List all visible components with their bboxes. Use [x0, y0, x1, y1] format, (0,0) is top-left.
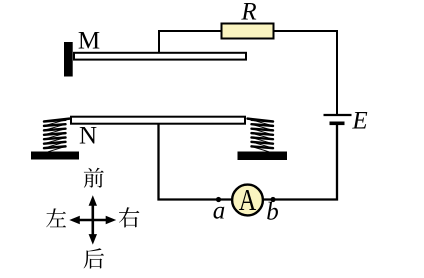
label 左 (left): [46, 208, 66, 227]
node a (junction dot): [216, 197, 221, 202]
left spring return strokes: [44, 120, 66, 152]
svg-text:b: b: [266, 199, 279, 226]
node b (junction dot): [270, 197, 275, 202]
right spring return strokes: [252, 120, 274, 152]
svg-text:M: M: [78, 28, 100, 55]
right ground block: [238, 152, 288, 161]
label 前 (front): [84, 168, 104, 188]
direction cross: horizontal double arrow (left-right): [69, 216, 116, 224]
label 右 (right): [119, 207, 139, 227]
label 后 (back): [84, 248, 104, 268]
direction cross: vertical double arrow (front-back): [89, 195, 97, 244]
plate M (upper capacitor plate): [74, 53, 246, 60]
ammeter A: [232, 182, 263, 217]
battery E: long positive plate: [324, 114, 352, 116]
wire from resistor R to battery top: [273, 31, 337, 115]
left spring under plate N (coil bands): [44, 119, 70, 149]
svg-text:N: N: [79, 123, 97, 150]
right spring under plate N (coil bands): [248, 119, 274, 149]
svg-text:E: E: [351, 108, 367, 135]
wire from battery bottom down and left to node b / ammeter: [262, 125, 337, 200]
svg-text:a: a: [213, 198, 226, 225]
svg-text:R: R: [240, 0, 256, 26]
plate N (lower movable plate): [71, 117, 245, 124]
resistor R (rectangle box): [222, 24, 274, 39]
battery E: short negative plate: [330, 122, 345, 126]
svg-text:A: A: [239, 182, 257, 217]
wire from plate N down and right to node a / ammeter: [159, 124, 235, 200]
left ground block: [31, 152, 79, 160]
wire from plate M up to resistor R: [159, 31, 222, 53]
wall support bar for plate M: [64, 42, 73, 77]
